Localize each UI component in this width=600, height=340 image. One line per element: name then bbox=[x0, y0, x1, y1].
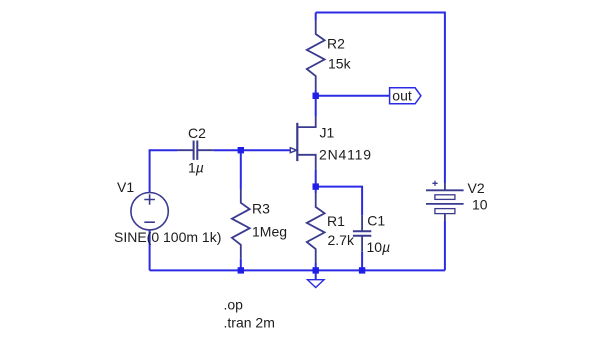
wire: right rail down to battery V2 top bbox=[444, 12, 446, 184]
svg-text:R1: R1 bbox=[327, 213, 345, 229]
wire: V2 bottom lead to bottom rail bbox=[444, 221, 446, 270]
junction node at C1 bottom bbox=[359, 267, 365, 273]
wire: top rail from R2 top to V2 branch bbox=[316, 12, 445, 14]
wire: bottom ground rail bbox=[150, 269, 445, 271]
svg-text:2.7k: 2.7k bbox=[328, 232, 355, 248]
svg-text:10: 10 bbox=[472, 196, 488, 212]
capacitor C1 bbox=[353, 215, 371, 252]
wire: V1 top lead bbox=[149, 150, 151, 193]
wire: R1 bottom stub bbox=[315, 263, 317, 270]
label R1 value 2.7k bbox=[328, 232, 355, 248]
svg-text:1Meg: 1Meg bbox=[252, 223, 287, 239]
svg-text:V2: V2 bbox=[468, 180, 485, 196]
label R3 value 1Meg bbox=[252, 223, 287, 239]
label J1 value 2N4119 bbox=[319, 146, 372, 162]
ground bbox=[308, 270, 325, 287]
label C1 value 10u bbox=[367, 239, 391, 255]
battery V2 bbox=[426, 181, 464, 221]
svg-text:.tran 2m: .tran 2m bbox=[224, 314, 275, 330]
transistor J1 (N-JFET 2N4119) bbox=[290, 116, 315, 170]
wire: R3 bottom stub bbox=[240, 259, 242, 271]
spice directive .tran 2m bbox=[224, 314, 275, 330]
label V1 designator bbox=[117, 179, 134, 195]
junction node at ground bbox=[313, 267, 319, 273]
resistor R1 bbox=[307, 193, 325, 263]
voltage source V1 (sine) bbox=[131, 193, 168, 230]
svg-text:2N4119: 2N4119 bbox=[319, 146, 372, 162]
resistor R2 bbox=[307, 20, 325, 90]
wire: C2 right lead to gate junction bbox=[213, 149, 241, 151]
junction node at out (R2/J1 drain/out) bbox=[313, 93, 319, 99]
svg-text:SINE(0 100m 1k): SINE(0 100m 1k) bbox=[114, 229, 221, 245]
wire: V1 bottom lead bbox=[149, 230, 151, 271]
label C1 designator bbox=[367, 212, 385, 228]
wire: J1 source down to source node bbox=[315, 170, 317, 187]
svg-text:R3: R3 bbox=[252, 201, 270, 217]
label R3 designator bbox=[252, 201, 270, 217]
label R1 designator bbox=[327, 213, 345, 229]
svg-text:V1: V1 bbox=[117, 179, 134, 195]
resistor R3 bbox=[232, 189, 250, 259]
label C2 value 1u bbox=[188, 159, 204, 175]
wire: V1 top to C2 left lead bbox=[150, 149, 178, 150]
wire: R3 top lead bbox=[240, 150, 242, 189]
junction node at J1 source (R1/C1) bbox=[313, 183, 319, 189]
label R2 designator bbox=[327, 35, 345, 51]
svg-text:out: out bbox=[392, 88, 412, 104]
svg-text:15k: 15k bbox=[328, 55, 352, 71]
label V1 value SINE(0 100m 1k) bbox=[114, 229, 221, 245]
svg-text:1µ: 1µ bbox=[188, 159, 204, 175]
svg-text:C1: C1 bbox=[367, 212, 385, 228]
label J1 designator bbox=[320, 125, 335, 141]
wire: R2 top stub bbox=[315, 13, 317, 21]
net flag out bbox=[390, 88, 421, 104]
wire: C1 bottom to bottom rail bbox=[361, 252, 363, 271]
wire: gate wire from junction to J1 gate bbox=[241, 149, 290, 151]
svg-text:J1: J1 bbox=[320, 125, 335, 141]
svg-text:R2: R2 bbox=[327, 35, 345, 51]
wire: out node to net flag bbox=[316, 95, 390, 97]
spice directive .op bbox=[224, 296, 244, 312]
label R2 value 15k bbox=[328, 55, 352, 71]
junction node at R3 bottom bbox=[238, 267, 244, 273]
svg-text:C2: C2 bbox=[188, 125, 206, 141]
wire: R1 top stub bbox=[315, 187, 317, 193]
wire: source node to C1 top bbox=[316, 187, 362, 216]
wire: out node down to J1 drain bbox=[315, 96, 317, 116]
label C2 designator bbox=[188, 125, 206, 141]
svg-text:10µ: 10µ bbox=[367, 239, 391, 255]
svg-text:.op: .op bbox=[224, 296, 244, 312]
capacitor C2 bbox=[178, 141, 214, 160]
label V2 designator bbox=[468, 180, 485, 196]
junction node at gate (C2/R3/J1 gate) bbox=[238, 147, 244, 153]
wire: R2 bottom to out node bbox=[315, 90, 317, 96]
label V2 value 10 bbox=[472, 196, 488, 212]
